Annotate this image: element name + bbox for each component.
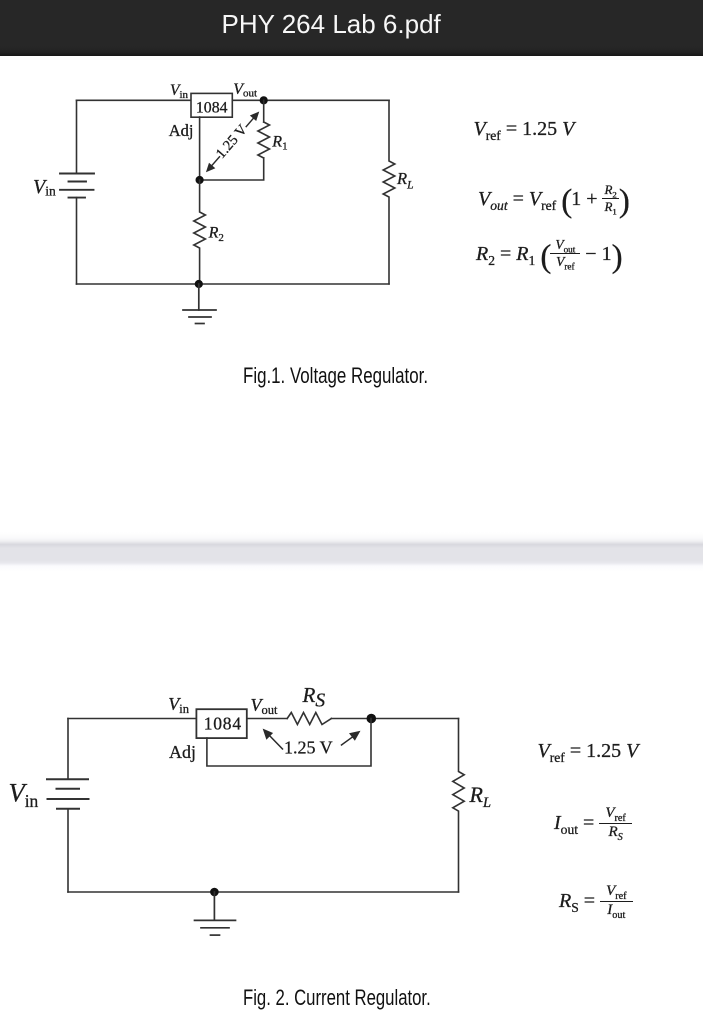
node: fig2 ground junction bbox=[210, 888, 219, 897]
svg-text:Vout: Vout bbox=[251, 695, 279, 717]
wire: fig2 left branch lower (battery - to bottom rail) bbox=[67, 809, 69, 892]
wire: fig1 R1 bottom to feedback rail bbox=[200, 158, 264, 180]
regulator U2: 1084 (fig2) bbox=[196, 709, 246, 738]
wire: fig2 bottom rail bbox=[68, 891, 459, 893]
resistor R2 (fig1) bbox=[194, 180, 206, 284]
equation fig1: Vref = 1.25 V bbox=[474, 118, 575, 141]
ground (fig2) bbox=[195, 892, 236, 935]
value label 1.25 V (fig2) bbox=[284, 738, 333, 758]
svg-text:1084: 1084 bbox=[204, 714, 242, 734]
wire: fig2 RS to right corner (through output node) bbox=[331, 718, 458, 720]
annotation: 1.25 V arrow right (points to output node) bbox=[342, 732, 360, 746]
caption: Fig.1. Voltage Regulator. bbox=[243, 365, 428, 387]
label R2 bbox=[208, 225, 224, 244]
wire: fig2 top rail left segment (battery to 1084 input) bbox=[68, 718, 196, 720]
label Adj pin (fig1) bbox=[169, 121, 194, 140]
ground (fig1) bbox=[183, 284, 216, 324]
resistor RL (fig1 load) bbox=[383, 100, 395, 284]
battery Vin (fig1) bbox=[60, 174, 94, 198]
svg-text:RS: RS bbox=[302, 683, 326, 712]
label Vin pin (fig1 1084 input) bbox=[170, 82, 189, 101]
equation fig2: RS = Vref/Iout bbox=[559, 884, 633, 919]
resistor RL (fig2 load) bbox=[453, 719, 464, 893]
wire: fig1 top rail right segment (1084 output to RL, through Vout node) bbox=[232, 99, 389, 101]
label R1 bbox=[271, 133, 287, 152]
svg-text:Vin: Vin bbox=[9, 778, 39, 811]
label Vout pin (fig1 1084 output) bbox=[233, 81, 257, 100]
svg-text:1.25 V: 1.25 V bbox=[284, 738, 333, 758]
wire: fig1 left branch upper (top rail down to battery +) bbox=[76, 100, 78, 173]
wire: fig2 left branch upper (top rail to battery +) bbox=[67, 719, 69, 780]
label Vin pin (fig2 1084 input) bbox=[168, 694, 189, 716]
label RL (fig2) bbox=[469, 782, 492, 811]
regulator U1: 1084 (fig1) bbox=[191, 93, 232, 117]
wire: fig1 left branch lower (battery - down to bottom rail) bbox=[76, 198, 78, 284]
battery Vin (fig2) bbox=[47, 779, 89, 809]
wire: fig2 1084 output to RS bbox=[248, 718, 287, 720]
node: fig1 ground junction bbox=[195, 280, 203, 288]
wire: fig1 bottom rail bbox=[77, 283, 390, 285]
caption: Fig. 2. Current Regulator. bbox=[243, 987, 431, 1009]
equation fig1: R2 = R1 (Vout/Vref - 1) bbox=[476, 238, 622, 276]
annotation: 1.25 V arrow left (points to Vout wire) bbox=[264, 730, 283, 750]
svg-text:RL: RL bbox=[469, 782, 492, 811]
annotation: 1.25 V double arrow lower segment (fig1) bbox=[207, 157, 220, 172]
annotation: 1.25 V double arrow upper segment (fig1) bbox=[246, 112, 258, 126]
label RL (fig1) bbox=[396, 169, 414, 191]
equation fig2: Iout = Vref/RS bbox=[554, 806, 632, 841]
label Vout pin (fig2 1084 output) bbox=[251, 695, 279, 717]
resistor R1 (fig1) bbox=[258, 122, 270, 158]
node: fig1 Vout junction bbox=[260, 96, 268, 104]
resistor RS (fig2, series sense resistor) bbox=[287, 713, 331, 725]
node: fig1 Adj junction bbox=[196, 176, 204, 184]
wire: fig1 Vout node down to R1 bbox=[263, 100, 265, 122]
node: fig2 output junction after RS bbox=[367, 714, 377, 724]
label Adj pin (fig2) bbox=[169, 742, 196, 762]
wire: fig1 Adj pin down to Adj node bbox=[199, 117, 201, 180]
wire: fig1 top rail left segment (battery to 1084 input) bbox=[77, 99, 192, 101]
label Vin (fig2 battery) bbox=[9, 778, 39, 811]
label RS bbox=[302, 683, 326, 712]
svg-text:Vin: Vin bbox=[168, 694, 189, 716]
equation fig1: Vout = Vref (1 + R2/R1) bbox=[478, 183, 629, 221]
wire: fig2 Adj feedback loop (Adj pin down, right, up to output node) bbox=[207, 719, 371, 767]
svg-text:Adj: Adj bbox=[169, 742, 196, 762]
equation fig2: Vref = 1.25 V bbox=[538, 740, 639, 763]
label Vin (fig1 battery) bbox=[33, 176, 56, 199]
value label 1.25 V (fig1, rotated) bbox=[213, 121, 251, 161]
